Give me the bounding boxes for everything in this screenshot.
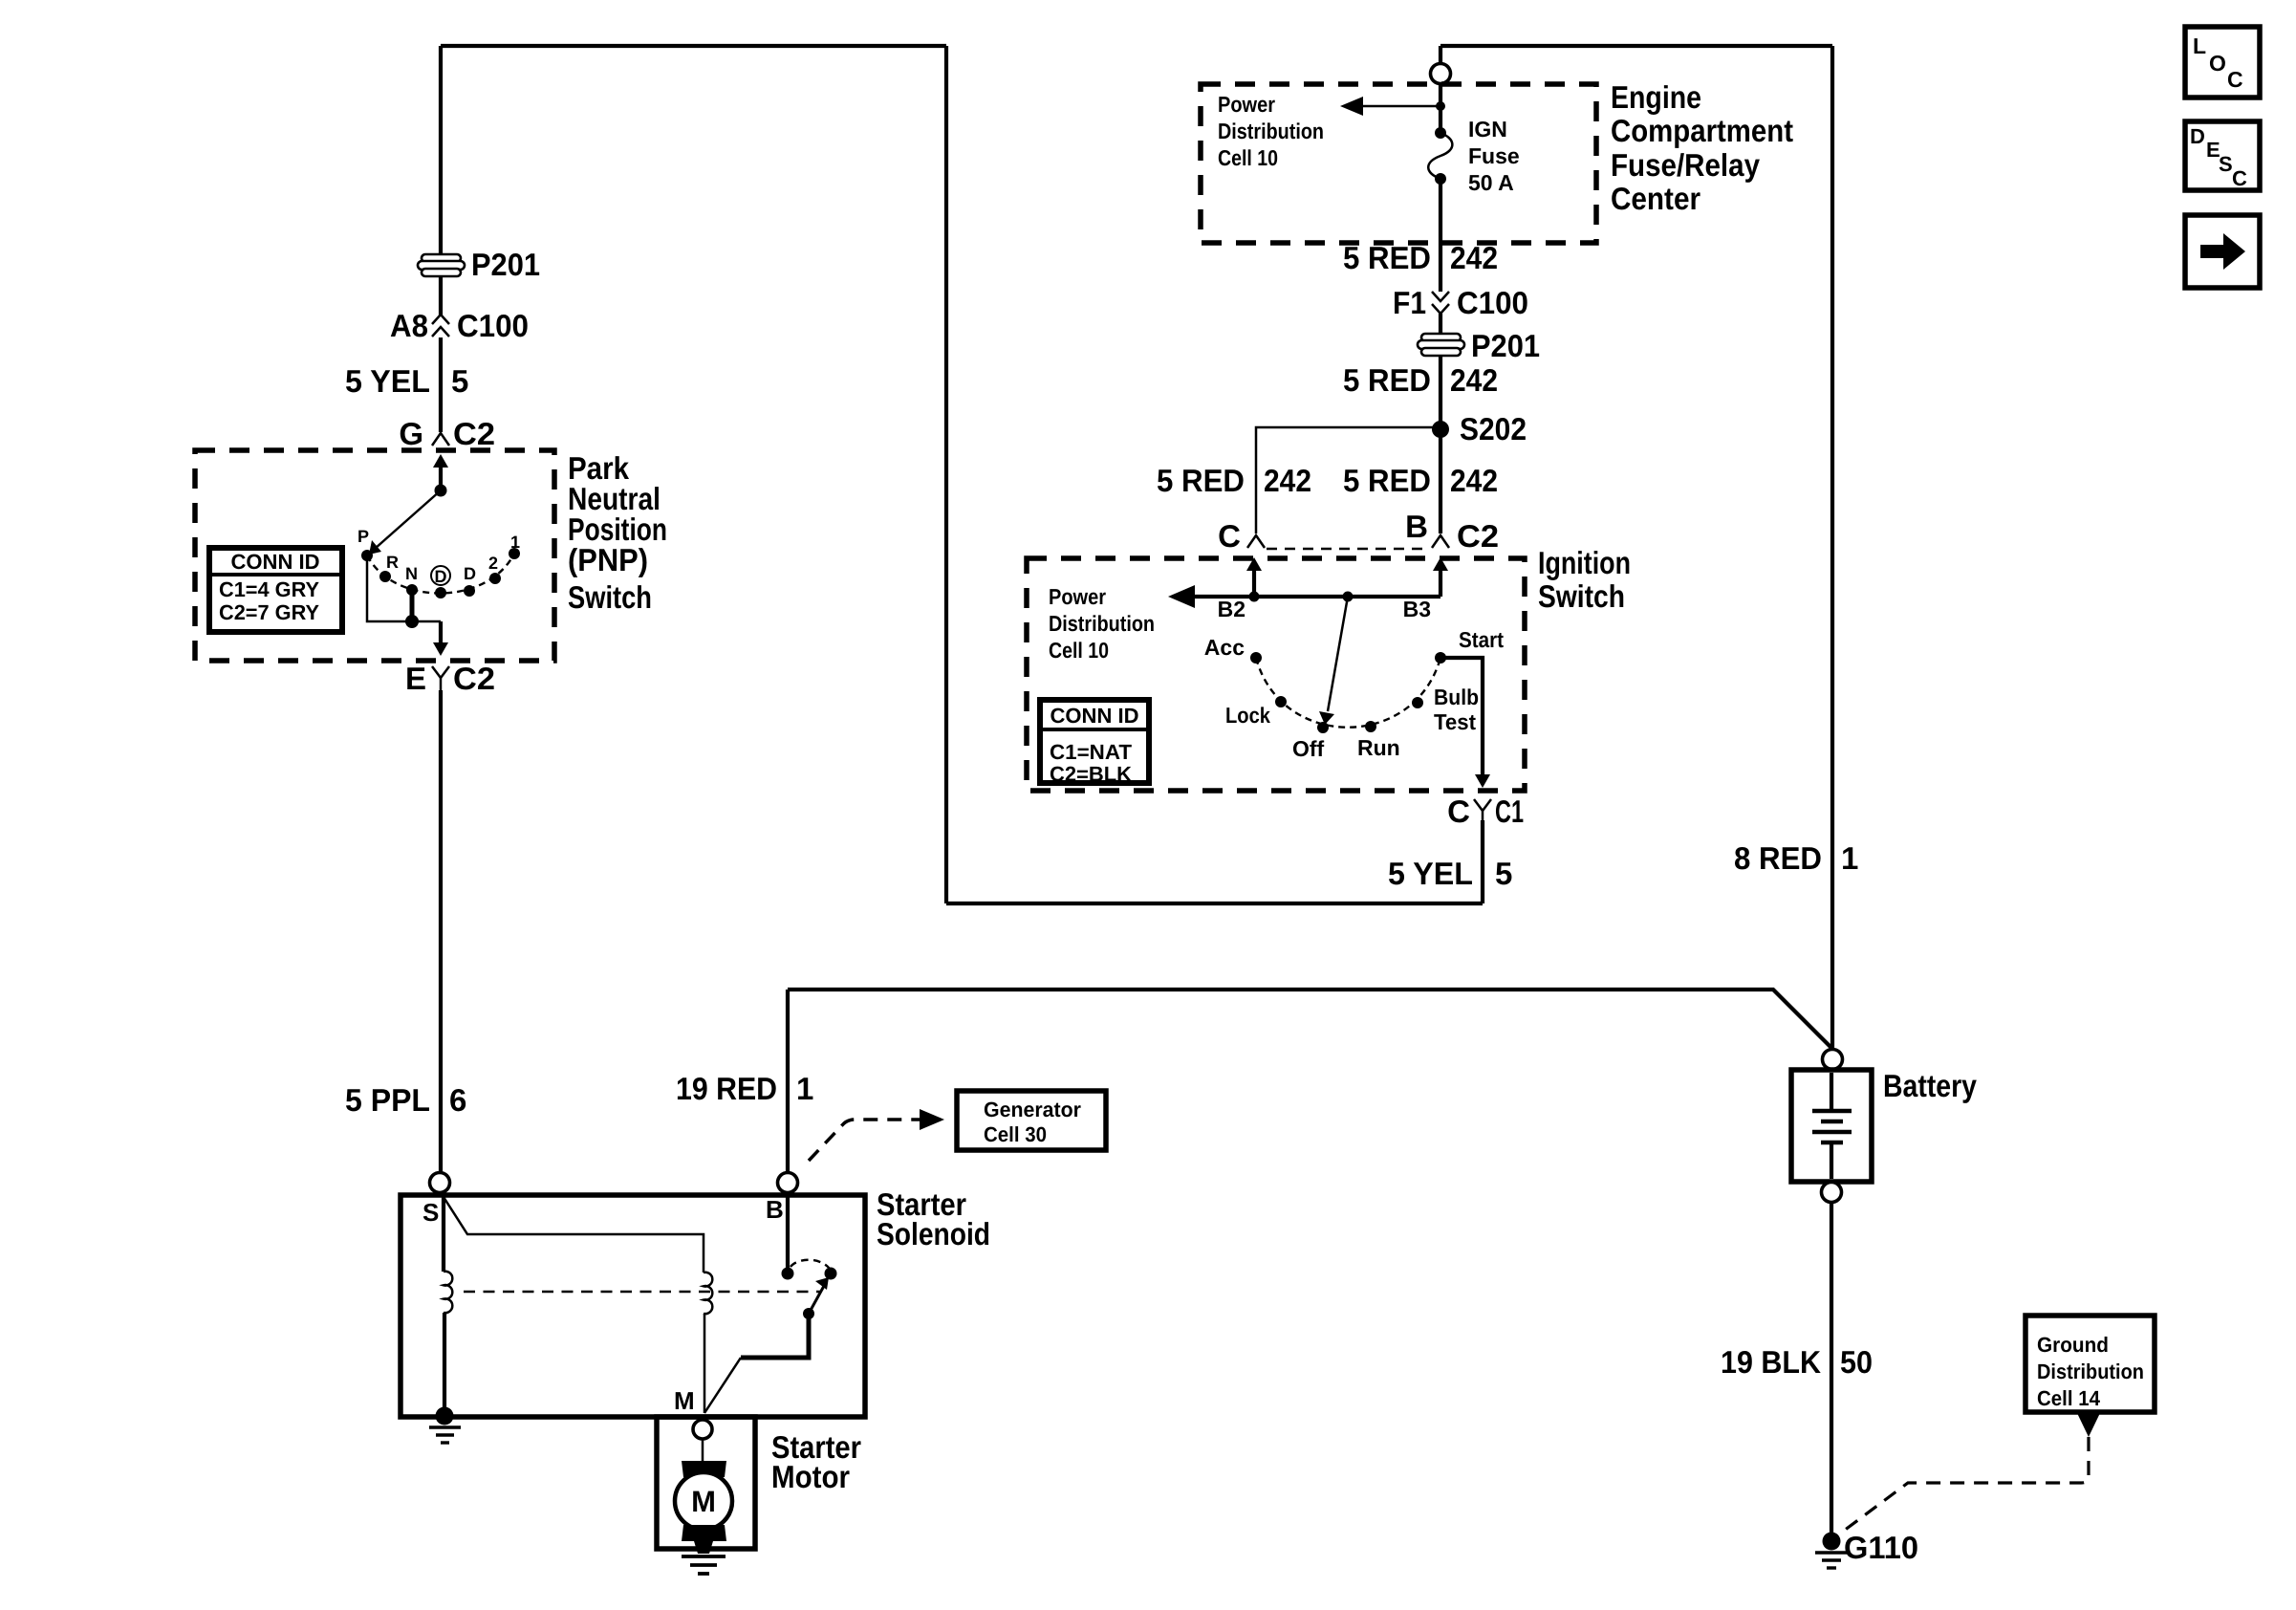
wire: B2 arrow up to C	[1246, 557, 1262, 597]
node: power distribution tap	[1436, 101, 1445, 111]
wire: C100 to P201	[1439, 314, 1442, 335]
thin dashed connector face line C2	[1267, 548, 1430, 550]
svg-text:Battery: Battery	[1883, 1068, 1978, 1103]
wire: stub into fuse center terminal	[1439, 46, 1442, 63]
svg-text:1: 1	[796, 1071, 813, 1106]
node Run contact	[1365, 721, 1376, 732]
svg-text:5 RED: 5 RED	[1157, 463, 1245, 498]
node: output junction	[405, 615, 419, 628]
svg-text:50: 50	[1840, 1344, 1873, 1380]
svg-text:Test: Test	[1434, 709, 1476, 734]
terminal B circle	[778, 1173, 798, 1193]
dashed gear-position arc	[367, 554, 514, 594]
svg-text:5 RED: 5 RED	[1343, 362, 1431, 398]
wire: left drop to P201	[439, 46, 443, 256]
engine compartment fuse/relay center dashed box	[1201, 84, 1596, 243]
arrow to power distribution (ignition)	[1168, 585, 1195, 608]
pull-in winding L1	[444, 1272, 452, 1313]
node: ignition wiper pivot	[1343, 592, 1354, 602]
label Power Distribution Cell 10 (ignition)	[1049, 584, 1155, 663]
wire: S branch diagonal to hold-in winding	[444, 1197, 704, 1273]
wire: fuse down to F1 C100	[1439, 179, 1442, 292]
dashed ignition position arc	[1256, 658, 1440, 728]
svg-text:19 RED: 19 RED	[676, 1071, 777, 1106]
PNP switch dashed box	[195, 450, 554, 661]
svg-text:F1: F1	[1393, 285, 1426, 320]
svg-text:C2=7 GRY: C2=7 GRY	[219, 600, 319, 624]
node P contact	[361, 550, 373, 561]
svg-text:5: 5	[451, 363, 468, 399]
svg-text:Ground: Ground	[2037, 1333, 2109, 1357]
svg-text:C1=NAT: C1=NAT	[1050, 740, 1133, 764]
svg-text:C1: C1	[1495, 794, 1524, 829]
node 2 contact	[489, 573, 501, 584]
wire: S202 down to ignition B	[1439, 429, 1442, 533]
svg-text:L: L	[2193, 33, 2206, 58]
wire: top horizontal fuse to battery feed	[1440, 44, 1832, 48]
svg-text:Switch: Switch	[1538, 578, 1625, 614]
svg-text:8 RED: 8 RED	[1734, 840, 1822, 876]
svg-text:Distribution: Distribution	[1218, 119, 1324, 143]
svg-text:50 A: 50 A	[1468, 170, 1514, 195]
svg-text:Acc: Acc	[1204, 635, 1245, 660]
wire: P201 to connector C100	[439, 276, 443, 315]
label Bulb Test	[1434, 685, 1479, 734]
svg-text:E: E	[405, 661, 426, 696]
svg-text:D: D	[2190, 124, 2205, 148]
svg-text:B2: B2	[1218, 597, 1245, 621]
wire: yellow-loop horizontal y=945	[946, 902, 1483, 905]
ground distribution cell 14 reference box	[2025, 1316, 2155, 1412]
wire: S down to pull-in winding	[442, 1195, 445, 1272]
svg-text:Center: Center	[1611, 181, 1700, 216]
svg-text:6: 6	[449, 1082, 466, 1118]
battery B1	[1791, 1070, 1872, 1182]
terminal S circle	[430, 1173, 450, 1193]
starter motor box	[657, 1417, 755, 1549]
svg-text:Solenoid: Solenoid	[877, 1216, 990, 1251]
wire: C1 down to yellow loop	[1481, 820, 1484, 903]
wire: right battery feed vertical	[1830, 46, 1834, 1049]
node: B2 junction	[1249, 592, 1260, 602]
starter solenoid box	[401, 1195, 865, 1417]
svg-text:M: M	[691, 1485, 716, 1518]
svg-text:19 BLK: 19 BLK	[1721, 1344, 1821, 1380]
node: output contact	[825, 1268, 837, 1280]
svg-text:Distribution: Distribution	[2037, 1360, 2144, 1383]
svg-text:(PNP): (PNP)	[568, 542, 648, 577]
wire: Start to C C1 exit with arrow	[1440, 658, 1490, 788]
svg-text:Power: Power	[1218, 92, 1275, 117]
DESC icon box	[2185, 121, 2260, 190]
svg-text:C1=4 GRY: C1=4 GRY	[219, 577, 319, 601]
svg-text:Cell 30: Cell 30	[984, 1122, 1047, 1146]
node: B contact	[782, 1268, 794, 1280]
generator cell 30 reference box	[957, 1091, 1106, 1150]
svg-text:1: 1	[1841, 840, 1858, 876]
PNP CONN ID table	[209, 548, 342, 632]
svg-text:5 RED: 5 RED	[1343, 463, 1431, 498]
wire: battery to G110	[1830, 1203, 1833, 1539]
svg-text:P201: P201	[1471, 328, 1540, 363]
svg-text:Fuse: Fuse	[1468, 143, 1520, 168]
fuse IGN 50 A element	[1428, 127, 1452, 185]
terminal circle at fuse center	[1431, 64, 1451, 84]
node S202 splice	[1432, 421, 1449, 438]
splice P201 (right pass-through grommet)	[1418, 334, 1464, 356]
svg-text:C100: C100	[457, 308, 529, 343]
svg-text:N: N	[405, 564, 418, 583]
svg-text:Start: Start	[1459, 627, 1504, 652]
svg-text:D: D	[435, 567, 447, 586]
label Starter Solenoid	[877, 1186, 990, 1251]
svg-text:Off: Off	[1292, 736, 1325, 761]
svg-text:R: R	[386, 553, 399, 572]
wire: PNP entry arrow (up)	[433, 454, 448, 490]
dashed plunger link	[464, 1291, 820, 1294]
ground distribution pointer triangle	[2077, 1413, 2100, 1437]
wire: E C2 down to starter solenoid S	[439, 690, 443, 1172]
label Park Neutral Position (PNP) Switch	[568, 450, 667, 615]
svg-text:A8: A8	[390, 308, 428, 343]
node R contact	[379, 571, 391, 582]
svg-text:B3: B3	[1403, 597, 1431, 621]
movable contact arm with arrow	[809, 1277, 829, 1314]
svg-text:Lock: Lock	[1225, 703, 1270, 728]
connector chevron C (ignition)	[1247, 535, 1265, 548]
label Engine Compartment Fuse/Relay Center	[1611, 79, 1793, 216]
wire: B3 arrow up to B	[1433, 557, 1448, 597]
node Bulb Test contact	[1412, 697, 1423, 708]
node N contact	[406, 584, 418, 596]
wire: solenoid B feed bus	[788, 990, 1831, 1048]
wire: circle into box to fuse	[1439, 84, 1442, 133]
label Starter Motor	[771, 1429, 861, 1494]
circled D indicator	[431, 566, 450, 586]
wire: C100 to G C2 with label 5 YEL 5	[439, 337, 443, 432]
wire: S202 left branch to ignition C	[1256, 427, 1440, 533]
svg-text:5 RED: 5 RED	[1343, 240, 1431, 275]
svg-text:Motor: Motor	[771, 1459, 850, 1494]
node D contact	[464, 585, 475, 597]
svg-text:G110: G110	[1844, 1530, 1918, 1565]
wire: hold-in winding to M	[704, 1314, 706, 1413]
label Power Distribution Cell 10 (fuse center)	[1218, 92, 1324, 170]
dashed contact throw arc	[791, 1260, 830, 1269]
wire: arm to M elbow	[741, 1314, 809, 1358]
svg-text:242: 242	[1450, 362, 1498, 398]
LOC icon box	[2185, 27, 2260, 98]
svg-text:C2: C2	[453, 416, 495, 451]
svg-text:1: 1	[510, 533, 520, 552]
svg-text:CONN ID: CONN ID	[1051, 704, 1139, 728]
svg-text:C2: C2	[1457, 518, 1499, 554]
connector chevron B with label C2	[1432, 535, 1449, 548]
wire: P201 to S202	[1439, 356, 1442, 429]
svg-text:Run: Run	[1357, 735, 1400, 760]
battery top terminal	[1823, 1050, 1843, 1070]
wire: top horizontal from PNP feed to loop corner	[441, 44, 946, 48]
svg-text:C: C	[1218, 518, 1241, 554]
wire: B drop to solenoid	[786, 990, 790, 1172]
svg-text:5 PPL: 5 PPL	[345, 1082, 430, 1118]
arrow to power distribution (left)	[1340, 97, 1440, 116]
svg-text:C: C	[2232, 166, 2247, 190]
wire: N contact tick	[410, 590, 415, 621]
svg-text:S: S	[2219, 152, 2233, 176]
svg-text:242: 242	[1450, 463, 1498, 498]
node Off contact	[1317, 722, 1329, 733]
svg-text:242: 242	[1264, 463, 1311, 498]
svg-text:S202: S202	[1460, 411, 1527, 446]
svg-text:D: D	[464, 564, 476, 583]
svg-text:Distribution: Distribution	[1049, 611, 1155, 636]
svg-text:Engine: Engine	[1611, 79, 1701, 115]
wire: P contact to output	[367, 555, 441, 621]
node under circled D	[435, 587, 446, 598]
connector E C2 (Y symbol)	[432, 666, 449, 690]
svg-text:2: 2	[488, 554, 498, 573]
wire: B down to contact	[786, 1193, 790, 1269]
svg-text:B: B	[1405, 509, 1428, 544]
svg-text:B: B	[766, 1195, 784, 1224]
svg-text:Ignition: Ignition	[1538, 545, 1631, 580]
svg-text:Compartment: Compartment	[1611, 113, 1793, 148]
wire: M to motor armature	[702, 1439, 704, 1463]
svg-text:IGN: IGN	[1468, 117, 1507, 141]
connector C C1 (Y symbol)	[1474, 799, 1491, 820]
svg-text:Bulb: Bulb	[1434, 685, 1479, 709]
connector F1 C100 (double chevron down)	[1432, 292, 1449, 314]
svg-text:242: 242	[1450, 240, 1498, 275]
battery bottom terminal	[1822, 1183, 1842, 1203]
svg-text:P: P	[357, 527, 369, 546]
wire: yellow-loop vertical x=990	[944, 46, 948, 903]
svg-text:5 YEL: 5 YEL	[1388, 856, 1473, 891]
ignition CONN ID table	[1040, 700, 1149, 786]
svg-text:Generator: Generator	[984, 1098, 1081, 1121]
wire: ignition feed bus	[1193, 595, 1440, 598]
svg-text:Switch: Switch	[568, 579, 652, 615]
dashed link to G110	[1840, 1437, 2089, 1534]
connector A8 C100 (double chevron up)	[432, 315, 449, 337]
ground below starter motor	[682, 1556, 726, 1574]
node Acc contact	[1250, 652, 1262, 664]
svg-text:Fuse/Relay: Fuse/Relay	[1611, 147, 1761, 183]
svg-text:Cell 14: Cell 14	[2037, 1386, 2101, 1410]
svg-text:G: G	[399, 416, 423, 451]
svg-text:Cell 10: Cell 10	[1049, 638, 1109, 663]
terminal M circle	[693, 1420, 712, 1439]
svg-text:C100: C100	[1457, 285, 1528, 320]
wire: PNP exit arrow (down)	[433, 621, 448, 656]
ignition wiper arm arrow to Off	[1319, 597, 1348, 725]
label IGN Fuse 50 A	[1468, 117, 1520, 195]
node Start contact	[1435, 652, 1446, 664]
node 1 contact	[509, 548, 520, 559]
dashed branch to generator	[809, 1109, 944, 1161]
svg-text:M: M	[674, 1386, 695, 1415]
svg-text:C2=BLK: C2=BLK	[1050, 762, 1132, 786]
label Ignition Switch	[1538, 545, 1631, 614]
ground G110	[1815, 1533, 1848, 1569]
ignition switch dashed box	[1027, 558, 1525, 791]
wiper arm arrow to P	[369, 490, 441, 555]
svg-text:C2: C2	[453, 661, 495, 696]
wire: elbow diagonal to M	[704, 1358, 741, 1413]
node: PNP wiper junction	[435, 485, 447, 497]
svg-text:C: C	[1447, 794, 1470, 829]
svg-text:Cell 10: Cell 10	[1218, 145, 1278, 170]
wire: pull-in winding to ground	[443, 1313, 446, 1415]
hold-in winding L2	[704, 1273, 712, 1314]
ground node at solenoid	[429, 1407, 461, 1444]
svg-text:P201: P201	[471, 247, 540, 282]
svg-text:C: C	[2227, 67, 2243, 92]
svg-text:CONN ID: CONN ID	[231, 550, 320, 574]
motor M1 armature symbol	[675, 1461, 732, 1554]
svg-text:S: S	[422, 1198, 439, 1227]
svg-text:5: 5	[1495, 856, 1512, 891]
svg-text:5 YEL: 5 YEL	[345, 363, 430, 399]
forward arrow icon box	[2185, 215, 2260, 288]
svg-text:Power: Power	[1049, 584, 1106, 609]
connector G C2 (chevron up)	[432, 433, 449, 446]
svg-text:O: O	[2209, 51, 2226, 76]
splice P201 (left pass-through grommet)	[418, 254, 465, 276]
node: arm pivot	[803, 1308, 814, 1319]
node Lock contact	[1275, 696, 1287, 707]
